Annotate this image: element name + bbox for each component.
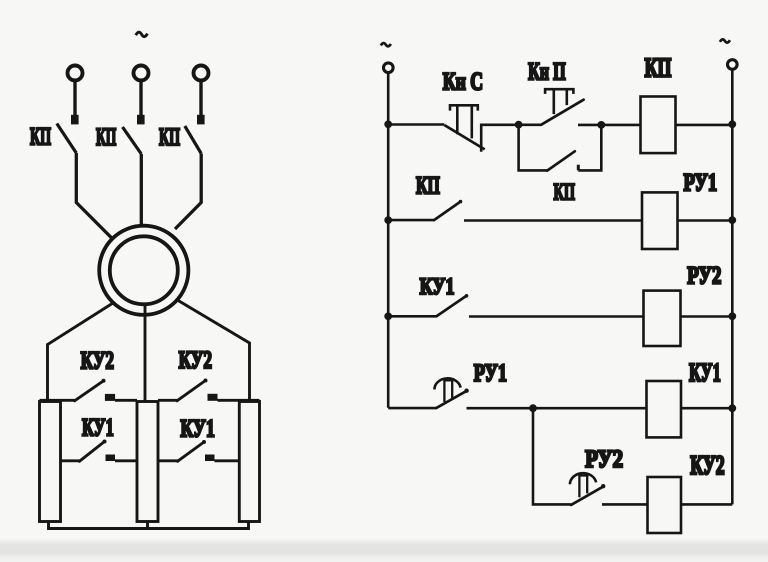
svg-text:РУ2: РУ2 xyxy=(687,263,721,290)
AC tilde left rail xyxy=(381,43,391,46)
branch to rung5 xyxy=(533,408,571,504)
contactor blade KP2 xyxy=(123,127,142,154)
contact stud 3 xyxy=(197,115,205,125)
rung3 wire b xyxy=(469,315,644,318)
bottom bus xyxy=(49,522,249,529)
svg-text:КУ2: КУ2 xyxy=(179,347,212,374)
rung4 wire a xyxy=(388,407,436,410)
rung3 wire c xyxy=(681,315,733,318)
KU1 level wire seg D xyxy=(215,459,240,462)
contact KU2 right blade xyxy=(177,381,206,401)
coil RU2 xyxy=(644,291,681,346)
contact RU1 delay dashpot xyxy=(434,378,460,389)
svg-text:КУ2: КУ2 xyxy=(690,451,724,480)
node rail1-rung1 xyxy=(384,120,392,128)
contact KU2 left blade xyxy=(75,381,104,401)
contact KU1 right blade xyxy=(178,442,205,461)
rung1 wire c xyxy=(676,124,733,127)
selfhold branch left xyxy=(519,125,548,171)
node rail1-rung2 xyxy=(384,216,392,224)
wire L1 drop xyxy=(73,81,76,116)
contact KU1 left stud xyxy=(106,455,116,462)
button KnP right wire xyxy=(578,124,601,127)
KU2 level wire seg D xyxy=(218,399,260,402)
AC tilde (left power circuit) xyxy=(136,32,148,36)
KU2 level wire seg C xyxy=(158,399,177,402)
button KnS right terminal xyxy=(481,125,518,152)
svg-text:КУ2: КУ2 xyxy=(81,347,114,374)
svg-text:КП: КП xyxy=(30,124,51,151)
contact KP selfhold blade xyxy=(547,151,575,170)
node rail2-rung1 xyxy=(728,120,736,128)
wire rotor left xyxy=(48,303,114,401)
node rail1-rung3 xyxy=(384,312,392,320)
rung2 wire c xyxy=(678,219,733,222)
rung1 wire b xyxy=(601,124,640,127)
svg-text:КП: КП xyxy=(416,172,440,199)
rung1 wire a xyxy=(388,123,444,126)
resistor box R2 xyxy=(137,402,158,522)
node rung1-b xyxy=(597,121,605,129)
motor stator circle xyxy=(99,226,188,315)
rung2 wire a xyxy=(388,219,434,222)
wire phase2 to motor xyxy=(140,154,143,226)
button KnP left wire xyxy=(519,124,542,127)
terminal L3 xyxy=(194,66,209,81)
button KnS plunger xyxy=(450,105,478,138)
coil KU2 xyxy=(648,477,682,533)
selfhold branch right xyxy=(578,125,601,170)
svg-text:КУ1: КУ1 xyxy=(689,359,721,387)
AC tilde right rail xyxy=(720,39,730,42)
rung4 wire c xyxy=(681,407,732,410)
svg-text:КУ1: КУ1 xyxy=(82,415,114,442)
rung5 wire b xyxy=(602,503,648,506)
terminal right rail xyxy=(728,60,738,70)
terminal L1 xyxy=(68,66,83,81)
svg-text:Кн С: Кн С xyxy=(443,69,483,96)
right rail xyxy=(731,69,734,504)
svg-text:КП: КП xyxy=(159,124,180,151)
wire rotor mid xyxy=(144,303,147,402)
coil RU1 xyxy=(642,192,678,249)
terminal left rail xyxy=(384,63,394,73)
KU1 level wire seg B xyxy=(115,459,137,462)
node rung1-a xyxy=(515,121,523,129)
wire L2 drop xyxy=(139,81,142,116)
contact stud 2 xyxy=(137,115,145,125)
node rail2-rung2 xyxy=(728,216,736,224)
contact KU1 rung3 blade xyxy=(437,296,467,317)
node rail2-rung4 xyxy=(728,404,736,412)
wire phase3 to motor xyxy=(175,154,201,230)
rung4 wire b xyxy=(467,407,647,410)
resistor box R3 xyxy=(239,402,259,522)
svg-text:РУ1: РУ1 xyxy=(474,360,507,387)
svg-text:КУ1: КУ1 xyxy=(420,274,455,300)
button KnP blade xyxy=(542,100,584,125)
terminal L2 xyxy=(134,66,149,81)
KU2 level wire seg B xyxy=(115,399,137,402)
KU2 level wire seg A xyxy=(40,399,75,402)
contact RU2 delay blade xyxy=(571,486,603,505)
coil KU1 xyxy=(647,381,682,437)
KU1 level wire seg A xyxy=(61,459,80,462)
svg-text:КП: КП xyxy=(554,180,575,206)
contact KU1 right stud xyxy=(205,455,215,462)
contact stud 1 xyxy=(71,115,79,125)
svg-text:КП: КП xyxy=(645,54,672,83)
contact KU2 left stud xyxy=(105,394,115,401)
contact KU2 right stud xyxy=(208,394,218,401)
wire L3 drop xyxy=(199,81,202,116)
node rung4 branch xyxy=(529,404,537,412)
contact RU1 delay blade xyxy=(436,391,467,408)
rung3 wire a xyxy=(388,315,436,318)
svg-text:РУ1: РУ1 xyxy=(684,169,718,196)
wire phase1 to motor xyxy=(76,153,112,238)
contact KU1 left blade xyxy=(79,442,104,462)
wire rotor right xyxy=(177,300,250,401)
svg-text:РУ2: РУ2 xyxy=(585,446,623,473)
node rail2-rung3 xyxy=(728,312,736,320)
motor rotor circle xyxy=(110,236,178,304)
resistor box R1 xyxy=(40,402,61,522)
contactor blade KP3 xyxy=(185,126,201,154)
button KnS blade xyxy=(444,125,484,149)
contact KP selfhold stud xyxy=(577,165,580,171)
left rail xyxy=(387,73,390,408)
rung5 wire c xyxy=(681,503,732,506)
contactor blade KP1 xyxy=(57,124,77,154)
rung2 wire b xyxy=(464,219,642,222)
svg-text:Кн П: Кн П xyxy=(528,58,566,85)
contact RU2 delay dashpot xyxy=(570,473,596,484)
contact KP rung2 blade xyxy=(434,202,461,221)
KU1 level wire seg C xyxy=(158,459,178,462)
coil KP xyxy=(641,97,676,154)
svg-text:КУ1: КУ1 xyxy=(180,415,214,442)
svg-text:КП: КП xyxy=(96,124,116,151)
button KnP plunger xyxy=(545,89,573,114)
